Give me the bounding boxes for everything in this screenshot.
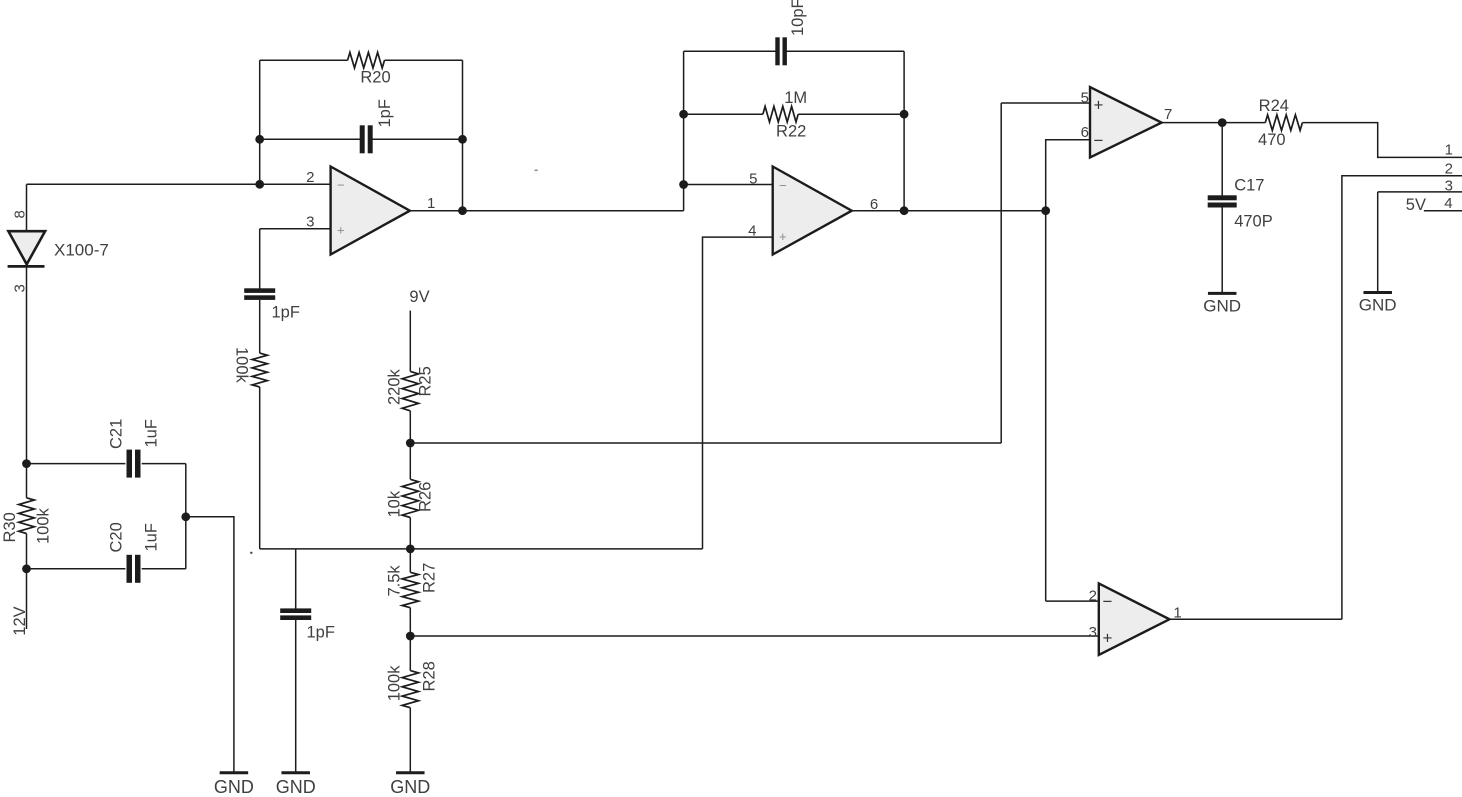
- wire U3 inverting input: [1046, 140, 1090, 601]
- svg-text:220k: 220k: [386, 368, 404, 405]
- wire cap joint vertical: [185, 464, 187, 569]
- wire C21 left lead: [27, 463, 126, 465]
- resistor 100k (U1 +input): [252, 353, 267, 387]
- pin 6 label (U2): [870, 196, 878, 213]
- wire connector pin3: [1378, 191, 1462, 193]
- wire diode anode drop: [26, 184, 28, 231]
- svg-text:GND: GND: [214, 777, 254, 797]
- junction U3 output / C17: [1218, 118, 1227, 127]
- svg-text:9V: 9V: [409, 288, 429, 306]
- wire R22 row left: [684, 113, 763, 115]
- svg-text:R22: R22: [776, 123, 806, 141]
- op-amp U4: [1099, 583, 1170, 655]
- wire feedback top left vertical: [259, 60, 261, 184]
- wire pin2 net from diode to U1 inverting input: [27, 183, 331, 185]
- wire connector pin2 to U4 output: [1342, 176, 1462, 620]
- capacitor C17: [1208, 195, 1237, 207]
- wire junction to ground drop: [186, 517, 234, 772]
- label R25: [417, 366, 435, 396]
- minus sign (U2): [779, 178, 787, 193]
- junction R27/R28: [406, 632, 415, 641]
- svg-text:+: +: [1094, 96, 1104, 115]
- wire U4 inverting input: [1046, 600, 1099, 602]
- wire 1pF row right: [372, 138, 463, 140]
- pin 1 label (connector): [1445, 141, 1453, 158]
- svg-text:470P: 470P: [1234, 213, 1273, 231]
- label 10k (R26): [386, 490, 404, 517]
- capacitor C21: [127, 450, 141, 478]
- resistor R20: [348, 52, 385, 68]
- resistor R28: [402, 671, 418, 708]
- svg-text:2: 2: [1089, 587, 1097, 604]
- label R22: [776, 123, 806, 141]
- wire U1 output to loop2: [410, 210, 684, 212]
- label C20: [108, 522, 126, 552]
- svg-text:5V: 5V: [1406, 196, 1426, 214]
- label R28: [421, 661, 439, 691]
- svg-text:R28: R28: [421, 661, 439, 691]
- wire R26 top lead: [409, 443, 411, 479]
- wire U3 +input riser: [1000, 103, 1002, 443]
- label 220k (R25): [386, 368, 404, 405]
- svg-text:3: 3: [1445, 178, 1453, 195]
- minus sign (U4): [1103, 592, 1113, 611]
- wire C21 right lead to joint: [142, 463, 186, 465]
- svg-text:X100-7: X100-7: [54, 240, 109, 259]
- svg-text:2: 2: [1445, 161, 1453, 178]
- svg-text:C21: C21: [108, 419, 126, 449]
- label 1uF (C21): [143, 419, 161, 447]
- junction U2 inverting input: [679, 180, 688, 189]
- svg-text:C17: C17: [1234, 176, 1264, 194]
- svg-text:5: 5: [1081, 89, 1089, 106]
- pin 2 label (connector): [1445, 161, 1453, 178]
- wire loop2 top rail left: [684, 50, 777, 52]
- stray mark (dash near U1 output row): [535, 170, 538, 172]
- wire 1pF bottom to ground: [295, 620, 297, 772]
- svg-text:−: −: [779, 178, 787, 193]
- label 9V supply: [409, 288, 429, 306]
- svg-text:3: 3: [1089, 624, 1097, 641]
- svg-text:−: −: [1094, 131, 1104, 150]
- wire C20 right lead to joint: [142, 568, 186, 570]
- wire loop2 top rail right: [786, 50, 904, 52]
- wire pin3 ground drop: [1377, 192, 1379, 292]
- wire R27 to node: [409, 608, 411, 636]
- wire 9V stub: [409, 311, 411, 372]
- wire U3 output: [1162, 122, 1266, 124]
- svg-text:C20: C20: [108, 522, 126, 552]
- label 1pF (U1 feedback): [376, 99, 394, 127]
- svg-text:+: +: [337, 223, 345, 238]
- resistor R24: [1265, 115, 1302, 131]
- svg-text:8: 8: [12, 210, 29, 218]
- label R26: [417, 482, 435, 512]
- ground (1pF bias): [276, 773, 316, 797]
- pin 2 label (U1): [306, 169, 314, 186]
- svg-text:1M: 1M: [784, 89, 807, 107]
- plus sign (U2): [779, 229, 787, 244]
- plus sign (U3): [1094, 96, 1104, 115]
- svg-text:−: −: [337, 178, 345, 193]
- wire 1pF bottom drop: [295, 549, 297, 609]
- pin 5 label (U2): [749, 170, 757, 187]
- svg-text:6: 6: [1081, 124, 1089, 141]
- resistor R22: [763, 106, 798, 122]
- pin 1 label (U1): [427, 195, 435, 212]
- diode X100-7: [8, 231, 46, 266]
- svg-text:10k: 10k: [386, 490, 404, 517]
- pin 3 label (connector): [1445, 178, 1453, 195]
- svg-text:1: 1: [1445, 141, 1453, 158]
- capacitor 1pF (U1 +input): [244, 288, 275, 300]
- ground (connector pin3): [1359, 293, 1397, 315]
- svg-text:470: 470: [1258, 131, 1286, 149]
- capacitor C20: [127, 555, 141, 583]
- stray mark (speck near bias rail): [250, 552, 252, 554]
- pin 3 label (diode): [12, 284, 29, 292]
- svg-text:1uF: 1uF: [143, 523, 161, 551]
- resistor R27: [402, 572, 418, 607]
- svg-text:R20: R20: [360, 69, 390, 87]
- pin 7 label (U3): [1164, 106, 1172, 123]
- pin 3 label (U1): [306, 214, 314, 231]
- svg-text:−: −: [1103, 592, 1113, 611]
- node B junction (R30 bottom / C20): [22, 564, 31, 573]
- wire U2 output to node: [852, 210, 1046, 212]
- wire U1 non-inverting input: [260, 228, 331, 230]
- wire cap to 100k: [259, 300, 261, 353]
- pin 4 label (connector): [1444, 195, 1452, 212]
- label 100k (R28): [386, 665, 404, 702]
- svg-text:12V: 12V: [11, 606, 29, 635]
- label R24: [1259, 97, 1289, 115]
- svg-text:R30: R30: [1, 512, 19, 542]
- svg-text:2: 2: [306, 169, 314, 186]
- label X100-7: [54, 240, 109, 259]
- ground (C17): [1203, 293, 1241, 315]
- svg-text:GND: GND: [390, 777, 430, 797]
- pin 6 label (U3): [1081, 124, 1089, 141]
- wire R25/R26 node to U3 riser: [410, 442, 1001, 444]
- svg-text:1: 1: [427, 195, 435, 212]
- wire loop2 left vertical: [683, 51, 685, 210]
- wire R28 top lead: [409, 636, 411, 671]
- svg-text:+: +: [779, 229, 787, 244]
- capacitor 1pF (bias): [280, 608, 311, 620]
- wire R24 to connector pin1: [1302, 123, 1462, 158]
- pin 3 label (U4): [1089, 624, 1097, 641]
- ground (left): [214, 773, 254, 797]
- wire C17 to ground: [1221, 207, 1223, 293]
- svg-text:1uF: 1uF: [143, 419, 161, 447]
- svg-text:10pF: 10pF: [789, 0, 807, 36]
- label 1uF (C20): [143, 523, 161, 551]
- label C21: [108, 419, 126, 449]
- wire feedback right vertical: [462, 60, 464, 211]
- op-amp U1: [331, 167, 410, 255]
- plus sign (U4): [1103, 629, 1113, 648]
- svg-text:GND: GND: [1359, 296, 1397, 315]
- wire C20 left lead: [27, 568, 126, 570]
- junction bias rail / R26-R27: [406, 545, 415, 554]
- label 1M (R22): [784, 89, 807, 107]
- label 470 (R24): [1258, 131, 1286, 149]
- svg-text:5: 5: [749, 170, 757, 187]
- pin 1 label (U4): [1173, 605, 1181, 622]
- wire R25 to node: [409, 411, 411, 443]
- label R20: [360, 69, 390, 87]
- minus sign (U1): [337, 178, 345, 193]
- node C junction (C21/C20 mid): [181, 512, 190, 521]
- label 5V supply: [1406, 196, 1426, 214]
- label R30: [1, 512, 19, 542]
- junction U2 output / U3-U4 branch: [1041, 206, 1050, 215]
- label 7.5k (R27): [386, 565, 404, 597]
- wire U1 +input drop: [259, 229, 261, 289]
- resistor R25: [402, 371, 418, 410]
- wire U4 output: [1170, 618, 1342, 620]
- junction U1 inverting input: [255, 180, 264, 189]
- wire R27 top lead: [409, 549, 411, 572]
- pin 2 label (U4): [1089, 587, 1097, 604]
- resistor R30: [19, 464, 35, 569]
- wire 100k down to bias rail: [259, 387, 261, 549]
- node A junction (R30 top / C21): [22, 459, 31, 468]
- wire diode cathode to R30 node: [26, 266, 28, 463]
- svg-text:7.5k: 7.5k: [386, 565, 404, 597]
- svg-text:100k: 100k: [35, 507, 53, 544]
- svg-text:4: 4: [1444, 195, 1452, 212]
- wire 12V stub: [26, 569, 28, 629]
- svg-text:100k: 100k: [233, 347, 251, 384]
- wire C17 top lead: [1221, 123, 1223, 196]
- op-amp U2: [773, 167, 852, 255]
- wire loop2 right vertical: [903, 51, 905, 210]
- minus sign (U3): [1094, 131, 1104, 150]
- junction U1 output: [458, 206, 467, 215]
- label 100k (U1 +input): [233, 347, 251, 384]
- capacitor 10pF (U2 feedback): [775, 37, 787, 65]
- label R27: [421, 563, 439, 593]
- svg-text:R26: R26: [417, 482, 435, 512]
- pin 4 label (U2): [748, 223, 756, 240]
- wire bias rail: [260, 548, 703, 550]
- junction R25/R26: [406, 439, 415, 448]
- svg-text:1pF: 1pF: [376, 99, 394, 127]
- junction U2 output: [900, 206, 909, 215]
- wire connector pin4: [1424, 210, 1462, 212]
- wire 1pF row left: [260, 138, 361, 140]
- wire R28 to ground: [409, 708, 411, 772]
- label 1pF (bias): [307, 624, 335, 642]
- wire R27/R28 node to U4 +input: [410, 635, 1099, 637]
- svg-text:R25: R25: [417, 366, 435, 396]
- capacitor 1pF (U1 feedback): [360, 125, 373, 153]
- svg-text:R24: R24: [1259, 97, 1289, 115]
- ground (R28): [390, 773, 430, 797]
- op-amp U3: [1090, 87, 1162, 157]
- svg-text:1pF: 1pF: [272, 303, 300, 321]
- svg-text:+: +: [1103, 629, 1113, 648]
- svg-text:7: 7: [1164, 106, 1172, 123]
- svg-text:GND: GND: [276, 777, 316, 797]
- label 12V supply: [11, 606, 29, 635]
- label 1pF (U1 +input): [272, 303, 300, 321]
- svg-text:R27: R27: [421, 563, 439, 593]
- svg-text:1pF: 1pF: [307, 624, 335, 642]
- svg-text:GND: GND: [1203, 297, 1241, 316]
- wire R26 to bias rail: [409, 518, 411, 549]
- svg-text:100k: 100k: [386, 665, 404, 702]
- junction loop2 left / R22: [679, 110, 688, 119]
- label C17: [1234, 176, 1264, 194]
- label 470P (C17): [1234, 213, 1273, 231]
- wire U2 inverting input: [684, 184, 773, 186]
- wire feedback top rail left: [260, 59, 348, 61]
- label 10pF (U2 feedback): [789, 0, 807, 36]
- junction loop2 right / R22: [900, 110, 909, 119]
- pin 5 label (U3): [1081, 89, 1089, 106]
- junction feedback right / cap: [458, 135, 467, 144]
- pin 8 label (diode): [12, 210, 29, 218]
- wire feedback top rail right: [385, 59, 463, 61]
- wire U2 non-inverting input: [703, 237, 773, 549]
- junction feedback left / cap: [255, 135, 264, 144]
- plus sign (U1): [337, 223, 345, 238]
- wire R22 row right: [798, 113, 904, 115]
- label 100k (R30): [35, 507, 53, 544]
- wire U3 non-inverting input: [1001, 102, 1090, 104]
- resistor R26: [402, 479, 418, 517]
